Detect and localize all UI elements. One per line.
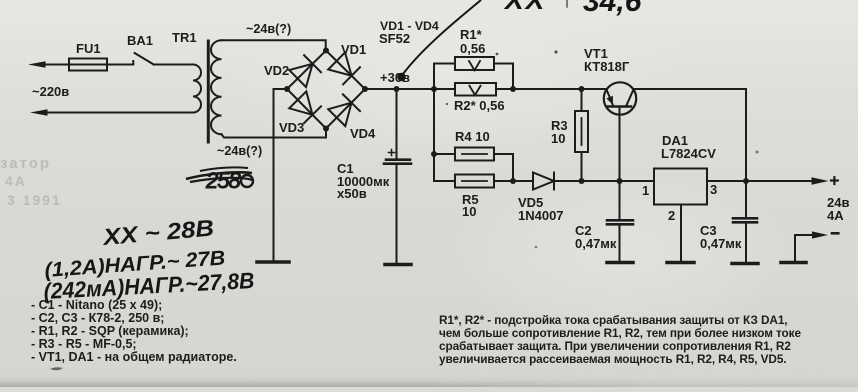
diode VD2: [289, 55, 321, 87]
smudge mark: [50, 367, 63, 370]
node R1 right junction: [510, 86, 516, 92]
svg-text:SF52: SF52: [379, 31, 410, 46]
svg-text:FU1: FU1: [76, 41, 101, 56]
diode VD4: [328, 94, 360, 126]
capacitor C2 top lead: [619, 181, 621, 219]
capacitor C1 plus sign: [389, 150, 395, 156]
capacitor C1 plates: [384, 160, 411, 164]
wire bottom AC lead: [44, 112, 193, 114]
wire minus output: [795, 235, 812, 262]
diode VD5: [533, 173, 554, 190]
wire bridge diamond edges: [287, 51, 365, 129]
node VT1 base DA1 input: [617, 178, 623, 184]
ground bar C2: [607, 261, 633, 265]
arrow top AC: [28, 61, 46, 68]
svg-text:R1*, R2* - подстройка тока сра: R1*, R2* - подстройка тока срабатывания …: [439, 313, 787, 327]
svg-text:R4 10: R4 10: [455, 129, 490, 144]
wire VD5 to DA1 input: [554, 180, 654, 182]
resistor R3 power mark: [581, 118, 583, 145]
svg-text:х50в: х50в: [337, 186, 367, 201]
resistor R4 power mark: [462, 153, 487, 155]
transistor VT1 body circle: [604, 82, 636, 114]
capacitor C2 plates: [607, 220, 633, 224]
wire R5 to VD5: [494, 180, 533, 182]
wire R4 R5 right join: [494, 154, 513, 181]
svg-text:10: 10: [551, 131, 565, 146]
node R4 left junction: [431, 151, 437, 157]
ground bar DA1 pin2: [667, 261, 694, 265]
minus sign output: [832, 232, 838, 235]
capacitor C1 bottom lead: [396, 165, 398, 263]
svg-text:0,47мк: 0,47мк: [575, 236, 617, 251]
svg-text:- C2, C3 - К78-2, 250 в;: - C2, C3 - К78-2, 250 в;: [31, 311, 164, 325]
wire secondary top to bridge: [222, 40, 326, 50]
transformer TR1 secondary winding: [211, 40, 222, 134]
transformer TR1 primary winding: [193, 65, 201, 113]
transistor VT1 emitter arrowhead: [606, 96, 613, 105]
plus sign output: [831, 177, 838, 184]
resistor R5 power mark: [462, 180, 487, 182]
svg-text:~24в(?): ~24в(?): [217, 144, 262, 158]
regulator DA1 pin2 lead: [680, 205, 682, 262]
svg-text:R2* 0,56: R2* 0,56: [454, 98, 505, 113]
wire switch to transformer: [154, 64, 193, 66]
svg-text:чем больше сопротивление R1, R: чем больше сопротивление R1, R2, тем при…: [439, 326, 801, 340]
resistor R4: [455, 148, 494, 161]
node bridge left: [284, 86, 290, 92]
svg-text:срабатывает защита. При увелич: срабатывает защита. При увеличении сопро…: [439, 339, 791, 353]
node bridge right: [362, 86, 368, 92]
wire collector to output node: [633, 89, 746, 181]
handwritten pointer line to +30v: [403, 0, 481, 74]
ground bar minus output: [781, 261, 806, 265]
svg-text:VD1: VD1: [341, 42, 366, 57]
svg-text:10: 10: [462, 204, 476, 219]
arrow minus output: [812, 231, 828, 238]
resistor R1 power mark V: [469, 61, 480, 70]
capacitor C3 plates: [733, 218, 757, 222]
fuse FU1 wire through: [69, 64, 107, 66]
node R3 bottom junction: [579, 178, 585, 184]
node R5 VD5 junction: [510, 178, 516, 184]
wire R1 left stub: [434, 64, 455, 90]
wire R1 right stub: [494, 64, 513, 90]
resistor R3 bottom stub: [581, 152, 583, 181]
handwritten blob on +30v: [397, 73, 405, 81]
handwritten scribble crossed out: [186, 167, 253, 193]
wire main +30v rail: [365, 88, 607, 90]
diode VD1: [328, 52, 360, 84]
svg-text:- R1, R2 - SQP (керамика);: - R1, R2 - SQP (керамика);: [31, 324, 189, 338]
wire R4 left stub: [434, 153, 455, 155]
svg-text:- VT1, DA1 - на общем радиатор: - VT1, DA1 - на общем радиаторе.: [31, 350, 237, 364]
transistor VT1 base bar: [608, 105, 631, 108]
svg-text:↑: ↑: [561, 0, 573, 13]
node bridge top: [323, 48, 329, 54]
svg-text:4А: 4А: [5, 173, 27, 189]
wire top AC lead: [42, 61, 133, 65]
node output C3 collector: [743, 178, 749, 184]
svg-text:R1*: R1*: [460, 27, 483, 42]
arrow plus output: [812, 177, 829, 185]
svg-text:34,6: 34,6: [583, 0, 642, 18]
transistor VT1 emitter: [607, 90, 614, 106]
svg-text:L7824CV: L7824CV: [661, 146, 716, 161]
resistor R3 top stub: [581, 89, 583, 111]
svg-text:VD3: VD3: [279, 120, 304, 135]
resistor R3: [575, 111, 588, 152]
svg-text:- R3 - R5 - MF-0,5;: - R3 - R5 - MF-0,5;: [31, 337, 137, 351]
svg-text:VD4: VD4: [350, 126, 376, 141]
node bridge bottom: [323, 126, 329, 132]
transformer TR1 core: [207, 41, 210, 142]
node C1 tap: [394, 86, 400, 92]
resistor R2 power mark V: [470, 86, 481, 95]
fuse FU1: [69, 59, 107, 71]
wire DA1 output line: [707, 180, 813, 182]
ground bar C3: [732, 262, 758, 266]
capacitor C3 bottom lead: [745, 224, 747, 263]
transistor VT1 base lead: [619, 108, 621, 182]
transistor VT1 collector: [627, 90, 634, 106]
svg-text:0,47мк: 0,47мк: [700, 236, 742, 251]
svg-text:BA1: BA1: [127, 33, 153, 48]
wire secondary bottom to bridge: [222, 129, 327, 138]
capacitor C1 top lead: [396, 89, 398, 159]
ground bar C1: [385, 263, 411, 267]
resistor R2: [455, 83, 496, 96]
svg-text:4А: 4А: [827, 208, 844, 223]
ground bar negative rail: [257, 260, 289, 264]
svg-text:TR1: TR1: [172, 30, 197, 45]
svg-text:3: 3: [710, 182, 717, 197]
svg-text:3 1991: 3 1991: [7, 192, 62, 208]
capacitor C2 bottom lead: [619, 226, 621, 262]
svg-text:КТ818Г: КТ818Г: [584, 59, 630, 74]
wire left join vertical: [434, 89, 455, 181]
switch BA1 lever: [135, 53, 154, 65]
svg-text:затор: затор: [0, 155, 51, 172]
svg-text:XX: XX: [503, 0, 547, 15]
resistor R1: [455, 57, 494, 70]
resistor R5: [455, 175, 494, 188]
svg-text:VD2: VD2: [264, 63, 289, 78]
arrow bottom AC: [30, 109, 48, 116]
svg-text:1: 1: [642, 183, 649, 198]
svg-text:0,56: 0,56: [460, 41, 485, 56]
wire bridge left vertex to ground: [274, 89, 288, 261]
svg-text:2: 2: [668, 208, 675, 223]
node R3 top junction: [579, 86, 585, 92]
svg-text:1N4007: 1N4007: [518, 208, 564, 223]
speck: [496, 53, 499, 56]
node R1 left junction: [431, 86, 437, 92]
svg-text:~24в(?): ~24в(?): [246, 22, 291, 36]
diode VD3: [289, 91, 321, 123]
regulator DA1 box: [654, 169, 707, 205]
svg-text:~220в: ~220в: [32, 84, 69, 99]
capacitor C3 top lead: [745, 181, 747, 217]
svg-text:увеличивается рассеиваемая мощ: увеличивается рассеиваемая мощность R1, …: [439, 352, 786, 366]
